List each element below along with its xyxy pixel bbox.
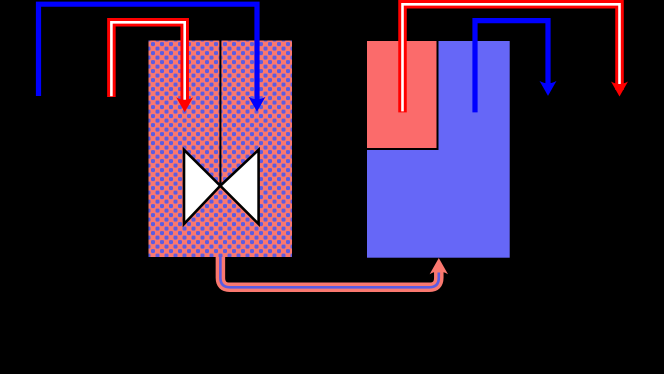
wire: pipe body: [403, 4, 620, 112]
wire: pipe body: [111, 22, 184, 105]
pipe: cold inlet (blue, into mixing tank): [39, 4, 266, 112]
wire: pipe body: [220, 256, 438, 287]
hot layer region (red, top-left of settling tank): [367, 41, 438, 149]
arrowhead (down): [611, 82, 628, 97]
arrowhead (down): [249, 97, 266, 112]
hot layer divider (vertical): [437, 41, 439, 150]
pipe: cold outlet (blue, from settling tank): [475, 21, 557, 113]
left mixing tank (dotted mixture fill): [149, 41, 293, 258]
wire: pipe core stripe: [111, 22, 184, 102]
wire: pipe core stripe: [403, 4, 620, 111]
wire: pipe body: [39, 4, 258, 105]
arrowhead (down): [176, 97, 193, 112]
hot layer divider (horizontal): [367, 148, 439, 150]
pipe: mixture outlet from mixing tank to settling tank (salmon with blue core, up arrow): [220, 256, 448, 287]
arrowhead (up): [430, 258, 448, 274]
pipe: hot outlet (red with white core, from settling tank): [403, 4, 629, 112]
right settling tank (blue liquid): [367, 41, 510, 258]
pipe: hot inlet (red with white core, into mixing tank): [111, 22, 193, 112]
arrowhead (down): [540, 81, 557, 96]
wire: pipe body: [475, 21, 548, 113]
stirrer shaft: [219, 41, 221, 187]
wire: pipe core stripe: [220, 256, 438, 287]
stirrer impeller (bowtie): [184, 150, 259, 224]
